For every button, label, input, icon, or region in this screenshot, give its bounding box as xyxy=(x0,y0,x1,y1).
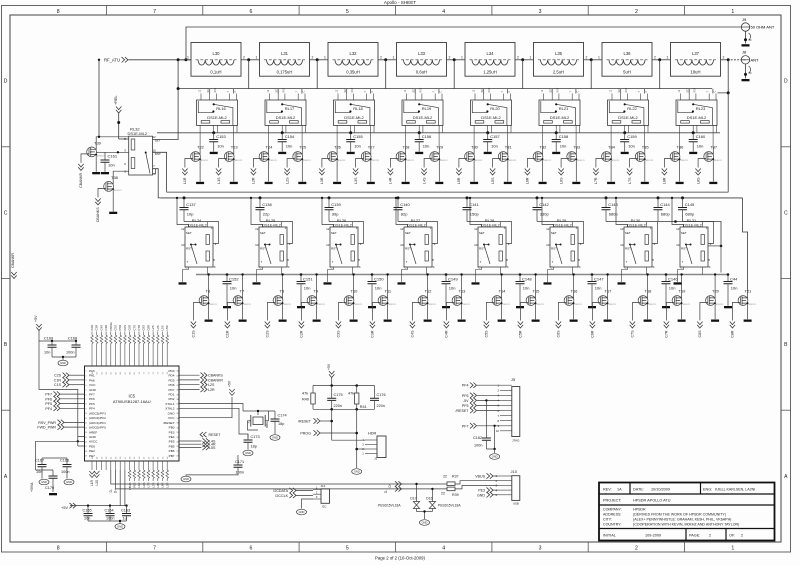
svg-text:C169: C169 xyxy=(44,337,53,341)
wire xyxy=(414,89,416,94)
wire xyxy=(718,60,729,93)
svg-text:10: 10 xyxy=(400,243,404,247)
wire xyxy=(647,275,649,292)
net FWD_PWR xyxy=(37,424,84,429)
wire xyxy=(387,275,389,292)
svg-text:C165: C165 xyxy=(83,508,92,512)
svg-text:HPSDR APOLLO ATU: HPSDR APOLLO ATU xyxy=(633,499,671,503)
wire xyxy=(575,89,577,94)
wire pin bottom xyxy=(119,461,121,470)
svg-text:C: C xyxy=(784,210,788,216)
svg-text:C176: C176 xyxy=(377,393,386,397)
wire xyxy=(336,147,338,150)
wire pin bottom xyxy=(166,461,168,470)
svg-text:RL18: RL18 xyxy=(353,106,363,111)
wire xyxy=(590,60,592,89)
svg-text:L37: L37 xyxy=(692,51,700,56)
wire xyxy=(157,478,159,481)
svg-text:BSS123: BSS123 xyxy=(114,190,122,192)
capacitor C138 22p xyxy=(256,198,273,222)
wire xyxy=(115,332,117,336)
resistor RN C4S xyxy=(100,335,103,343)
svg-text:C8S: C8S xyxy=(698,330,702,338)
svg-text:PB0: PB0 xyxy=(169,426,175,430)
node xyxy=(541,197,543,199)
wire pin 1 xyxy=(500,384,512,386)
node xyxy=(674,220,677,223)
svg-text:I2CCLK: I2CCLK xyxy=(275,494,288,498)
svg-text:L2S: L2S xyxy=(151,325,155,330)
wire xyxy=(242,275,244,292)
node xyxy=(519,273,522,276)
net PF6 xyxy=(462,393,500,398)
wire xyxy=(320,432,357,434)
svg-text:D-: D- xyxy=(384,490,388,493)
node xyxy=(355,384,358,387)
transistor T32 xyxy=(525,145,552,184)
wire pin bottom xyxy=(157,461,159,470)
net PF5 xyxy=(462,403,500,408)
relay RL32 DS1E-ML2 xyxy=(124,127,161,176)
ground xyxy=(662,306,670,308)
relay RL16 DS1E-ML2 xyxy=(197,87,238,148)
svg-text:12: 12 xyxy=(474,227,478,231)
node xyxy=(226,273,229,276)
transistor T26 xyxy=(319,145,346,184)
wire xyxy=(162,478,164,481)
wire xyxy=(118,113,120,139)
resistor R41 47k xyxy=(348,386,367,410)
wire xyxy=(152,332,154,336)
transistor T8 xyxy=(265,289,292,338)
transistor T18 xyxy=(630,289,657,338)
wire xyxy=(316,275,318,292)
svg-text:C162: C162 xyxy=(473,436,482,440)
wire xyxy=(573,310,575,320)
wire xyxy=(679,147,681,150)
svg-text:AVCC: AVCC xyxy=(89,440,98,444)
wire T38 drain xyxy=(113,171,129,177)
wire pin 1 xyxy=(498,475,512,477)
ground xyxy=(484,152,492,154)
svg-text:RSV_PWR: RSV_PWR xyxy=(38,421,56,425)
wire xyxy=(365,453,377,455)
svg-text:C153: C153 xyxy=(216,134,226,139)
svg-text:100n: 100n xyxy=(61,470,69,474)
wire xyxy=(143,332,145,336)
svg-text:C4S: C4S xyxy=(99,325,103,331)
svg-text:C161: C161 xyxy=(108,154,118,159)
svg-text:PF6: PF6 xyxy=(462,394,469,398)
svg-text:XTAL2: XTAL2 xyxy=(165,407,175,411)
wire xyxy=(644,147,646,150)
svg-text:RL23: RL23 xyxy=(696,106,706,111)
wire xyxy=(152,478,154,481)
wire xyxy=(535,275,537,292)
node xyxy=(212,131,215,134)
relay RL20 DS1E-ML2 xyxy=(471,87,512,148)
net L4S xyxy=(179,438,216,443)
svg-text:C8S: C8S xyxy=(142,325,146,331)
wire xyxy=(467,222,512,244)
svg-text:L7S: L7S xyxy=(628,177,632,184)
svg-text:8: 8 xyxy=(57,546,60,552)
capacitor C162 100n xyxy=(473,436,491,449)
svg-text:T8: T8 xyxy=(280,289,285,294)
svg-text:BSS123: BSS123 xyxy=(574,304,582,306)
wire T39 drain xyxy=(96,137,129,143)
capacitor C171 100n xyxy=(186,455,244,476)
svg-text:+REL: +REL xyxy=(114,95,118,105)
wire xyxy=(730,59,746,61)
svg-text:REV:: REV: xyxy=(603,487,612,491)
wire xyxy=(506,89,508,94)
wire xyxy=(681,310,683,320)
svg-text:RL19: RL19 xyxy=(422,106,432,111)
wire pin 5 xyxy=(500,405,512,407)
wire xyxy=(714,310,716,320)
wire xyxy=(277,89,279,94)
svg-text:C143: C143 xyxy=(608,202,618,207)
wire xyxy=(584,59,592,61)
svg-text:C137: C137 xyxy=(186,202,196,207)
node xyxy=(184,58,187,61)
ground xyxy=(420,520,430,526)
svg-text:109-2009: 109-2009 xyxy=(645,534,661,538)
svg-text:C171: C171 xyxy=(235,460,244,464)
transistor T17 xyxy=(590,289,617,338)
node xyxy=(727,91,730,94)
wire xyxy=(427,310,429,320)
wire pin bottom xyxy=(143,461,145,470)
ground xyxy=(458,320,466,322)
relay RL24 DS1E-ML2 xyxy=(181,218,217,282)
ground xyxy=(101,172,109,174)
svg-text:2: 2 xyxy=(312,56,314,60)
svg-text:PE3: PE3 xyxy=(169,430,175,434)
svg-text:GND: GND xyxy=(272,436,278,440)
resistor RN L5R xyxy=(166,335,169,343)
ground xyxy=(298,182,306,184)
svg-text:C152: C152 xyxy=(229,276,239,281)
wire xyxy=(644,166,646,182)
svg-text:10n: 10n xyxy=(449,286,456,291)
svg-text:1,25uH: 1,25uH xyxy=(483,70,497,75)
wire xyxy=(346,89,348,94)
svg-text:T32: T32 xyxy=(540,145,548,150)
wire xyxy=(365,444,377,446)
transistor T13 xyxy=(444,289,471,338)
svg-text:6: 6 xyxy=(249,546,252,552)
svg-text:PESD15VL18A: PESD15VL18A xyxy=(438,504,461,508)
wire pin bottom xyxy=(133,461,135,470)
net D- xyxy=(395,486,402,491)
svg-text:S: S xyxy=(358,265,360,269)
svg-text:10n: 10n xyxy=(375,286,382,291)
svg-text:T37: T37 xyxy=(710,145,718,150)
wire xyxy=(672,198,684,227)
svg-text:C174: C174 xyxy=(278,414,287,418)
capacitor C169 10n xyxy=(44,337,57,358)
node xyxy=(183,196,186,199)
svg-text:1: 1 xyxy=(393,56,395,60)
svg-text:7: 7 xyxy=(153,546,156,552)
svg-text:6: 6 xyxy=(249,9,252,15)
svg-text:PF6: PF6 xyxy=(45,397,52,401)
svg-text:C8R: C8R xyxy=(146,325,150,331)
svg-text:T34: T34 xyxy=(608,145,616,150)
svg-text:12: 12 xyxy=(400,227,404,231)
svg-text:T17: T17 xyxy=(605,289,613,294)
node xyxy=(250,197,252,199)
svg-text:2: 2 xyxy=(517,56,519,60)
wire xyxy=(551,89,553,94)
relay RL21 DS1E-ML2 xyxy=(539,87,580,148)
node xyxy=(177,87,180,90)
wire pin bottom xyxy=(124,461,126,470)
net C2S xyxy=(54,373,85,378)
ground xyxy=(58,360,68,366)
ground xyxy=(239,320,247,322)
svg-text:C2R: C2R xyxy=(300,330,304,338)
wire xyxy=(398,222,438,244)
svg-text:C139: C139 xyxy=(331,202,341,207)
connector J5 JTAG xyxy=(511,377,520,443)
wire xyxy=(461,275,463,292)
resistor RN C6S xyxy=(124,335,127,343)
svg-text:RL24: RL24 xyxy=(192,218,202,223)
ground xyxy=(253,282,261,284)
resistor RN L8S xyxy=(157,470,160,478)
wire to pin3 xyxy=(96,151,129,153)
svg-text:BSS123: BSS123 xyxy=(714,160,722,162)
ground xyxy=(415,152,423,154)
wire xyxy=(199,147,201,150)
ground xyxy=(115,524,125,530)
svg-text:2: 2 xyxy=(741,534,743,538)
wire xyxy=(91,332,93,336)
wire pin top 9 xyxy=(129,344,131,367)
ground xyxy=(270,435,280,441)
svg-text:C1R: C1R xyxy=(54,378,62,382)
svg-text:PD5: PD5 xyxy=(168,378,174,382)
svg-text:RST: RST xyxy=(488,87,491,92)
svg-text:PF5: PF5 xyxy=(462,404,469,408)
svg-text:PE2: PE2 xyxy=(89,449,95,453)
net CBANKR xyxy=(179,377,223,382)
wire xyxy=(727,93,729,192)
ground xyxy=(678,320,686,322)
capacitor C147 10n xyxy=(588,275,605,306)
svg-text:T24: T24 xyxy=(266,145,274,150)
svg-text:T6: T6 xyxy=(206,289,211,294)
ground xyxy=(181,476,191,482)
capacitor C165 10n xyxy=(83,506,93,521)
svg-text:RST: RST xyxy=(625,87,628,92)
svg-text:BSS123: BSS123 xyxy=(243,304,251,306)
wire pin bottom xyxy=(96,461,98,470)
wire pin top 14 xyxy=(152,344,154,367)
svg-text:GND: GND xyxy=(168,411,176,415)
svg-text:T16: T16 xyxy=(571,289,579,294)
svg-text:BSS123: BSS123 xyxy=(388,304,396,306)
svg-text:R41: R41 xyxy=(360,405,367,409)
wire xyxy=(318,59,328,61)
node xyxy=(727,273,730,276)
resistor RN PROG xyxy=(110,335,113,343)
svg-text:D17: D17 xyxy=(410,497,416,501)
resistor RN C2R xyxy=(91,335,94,343)
svg-text:82p: 82p xyxy=(401,211,408,216)
wire xyxy=(427,275,429,292)
transistor T23 xyxy=(216,145,243,184)
svg-text:10n: 10n xyxy=(44,351,50,355)
wire xyxy=(643,89,645,94)
ground xyxy=(604,320,612,322)
net C1S xyxy=(54,382,85,387)
svg-text:0,35uH: 0,35uH xyxy=(346,70,360,75)
svg-text:(ADC0)/PF0: (ADC0)/PF0 xyxy=(89,426,106,430)
svg-text:2: 2 xyxy=(709,534,711,538)
IC U IC5 AT90USB1287-16AU xyxy=(85,366,180,461)
svg-text:C2R: C2R xyxy=(90,325,94,331)
wire xyxy=(369,89,371,94)
svg-text:PF6: PF6 xyxy=(89,397,95,401)
svg-text:T27: T27 xyxy=(368,145,376,150)
node xyxy=(431,488,433,490)
svg-text:0,175uH: 0,175uH xyxy=(277,70,293,75)
ground xyxy=(490,454,500,460)
svg-text:BSS123: BSS123 xyxy=(680,160,688,162)
svg-text:C145: C145 xyxy=(685,202,695,207)
node xyxy=(606,273,608,275)
net +5V xyxy=(229,389,234,396)
svg-text:GND: GND xyxy=(66,480,72,484)
svg-text:(ADC2)/PF2: (ADC2)/PF2 xyxy=(89,416,106,420)
wire xyxy=(356,409,358,468)
svg-text:1u: 1u xyxy=(123,516,127,520)
net /RESET xyxy=(456,408,500,413)
svg-text:8: 8 xyxy=(57,9,60,15)
capacitor C44 10n xyxy=(724,275,739,306)
svg-text:10n: 10n xyxy=(36,470,42,474)
svg-text:S: S xyxy=(652,265,654,269)
svg-text:-5V: -5V xyxy=(463,399,469,403)
svg-text:10: 10 xyxy=(181,243,185,247)
node xyxy=(460,273,462,275)
wire xyxy=(491,542,493,552)
net PF7 xyxy=(462,423,500,428)
wire pin top 7 xyxy=(119,344,121,367)
svg-text:RL17: RL17 xyxy=(285,106,295,111)
node xyxy=(469,197,471,199)
svg-text:1: 1 xyxy=(461,56,463,60)
net -5V xyxy=(463,398,500,403)
svg-text:GND: GND xyxy=(60,361,66,365)
ground xyxy=(470,182,478,184)
wire xyxy=(743,198,748,292)
wire xyxy=(501,275,503,292)
ground xyxy=(265,182,273,184)
capacitor C141 150p xyxy=(463,198,480,222)
svg-text:C3S: C3S xyxy=(337,330,341,338)
svg-text:SET: SET xyxy=(405,231,411,235)
svg-text:L6S: L6S xyxy=(559,177,563,184)
svg-text:C: C xyxy=(645,91,648,93)
wire pin bottom xyxy=(110,461,112,470)
ground xyxy=(424,320,432,322)
svg-text:1: 1 xyxy=(598,56,600,60)
svg-text:L8R: L8R xyxy=(663,177,667,184)
svg-text:RST: RST xyxy=(405,247,411,251)
wire (bus B row2 top) xyxy=(160,197,742,199)
svg-text:BSS123: BSS123 xyxy=(317,304,325,306)
svg-text:C3R: C3R xyxy=(95,325,99,331)
wire pin bottom xyxy=(152,461,154,470)
svg-text:PROG: PROG xyxy=(109,322,113,330)
svg-text:L31: L31 xyxy=(281,51,289,56)
wire xyxy=(587,6,589,16)
wire xyxy=(100,332,102,336)
svg-text:C6S: C6S xyxy=(123,325,127,331)
ground xyxy=(367,182,375,184)
svg-text:RST: RST xyxy=(214,87,217,92)
node xyxy=(744,38,747,41)
svg-text:VBUS: VBUS xyxy=(475,475,485,479)
svg-text:RL20: RL20 xyxy=(490,106,500,111)
svg-text:BSS123: BSS123 xyxy=(269,160,277,162)
svg-text:100n: 100n xyxy=(106,516,114,520)
node junction L32 out xyxy=(384,58,387,61)
svg-text:T39: T39 xyxy=(94,140,102,145)
svg-text:RST: RST xyxy=(260,247,266,251)
wire xyxy=(129,478,131,481)
svg-text:Page 2 of 2 (10-Oct-2009): Page 2 of 2 (10-Oct-2009) xyxy=(375,555,425,560)
svg-text:12: 12 xyxy=(181,227,185,231)
wire xyxy=(486,426,494,449)
wire xyxy=(119,138,129,140)
wire xyxy=(370,147,372,150)
wire xyxy=(542,166,544,182)
svg-text:PD6: PD6 xyxy=(168,383,174,387)
wire pin 6 xyxy=(500,410,512,412)
svg-text:GND: GND xyxy=(299,510,305,514)
node xyxy=(330,420,333,423)
ground xyxy=(39,479,49,485)
wire xyxy=(177,198,189,227)
svg-text:T31: T31 xyxy=(505,145,513,150)
svg-text:PF4: PF4 xyxy=(89,407,95,411)
wire xyxy=(522,60,524,89)
capacitor C152 10n xyxy=(223,275,240,306)
wire pinC xyxy=(153,169,156,174)
svg-text:RL30: RL30 xyxy=(631,218,641,223)
svg-text:RESET: RESET xyxy=(209,433,222,437)
wire AVCC xyxy=(78,445,85,447)
wire xyxy=(535,310,537,320)
transistor T37 xyxy=(695,145,722,184)
node xyxy=(349,131,352,134)
svg-text:R40: R40 xyxy=(302,398,309,402)
capacitor C157 10n xyxy=(483,133,500,152)
relay RL23 DS1E-ML2 xyxy=(676,87,717,148)
ground xyxy=(572,182,580,184)
transistor T25 xyxy=(284,145,311,184)
svg-text:T29: T29 xyxy=(436,145,444,150)
wire xyxy=(781,409,791,411)
svg-text:BSS123: BSS123 xyxy=(536,304,544,306)
wire T38 source xyxy=(112,195,114,211)
